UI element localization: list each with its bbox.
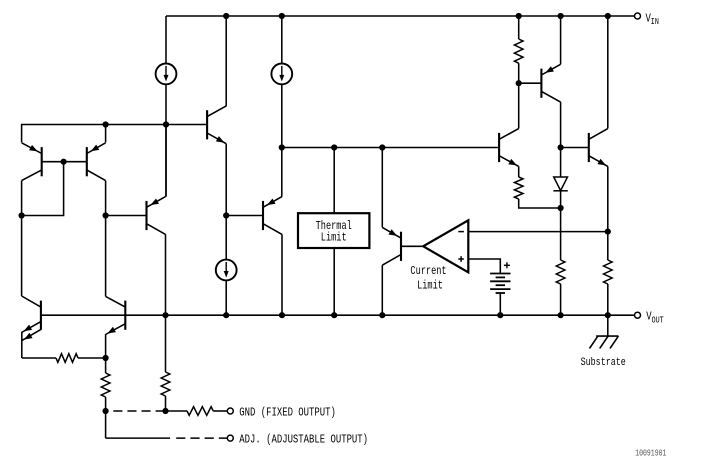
wire: R5 to node E (78, 357, 106, 359)
transistor Q2 (PNP mirror right) (87, 143, 106, 181)
wire: Q8 base to op-amp U1 (401, 245, 423, 247)
node: Q1 collector / Q6 feed (19, 212, 25, 218)
node: Q11 emitter / U1 inverting input (605, 229, 611, 235)
label VIN (646, 12, 659, 27)
wire: Q9 collector down to node C (560, 102, 562, 147)
wire: Q6 emitters down (21, 332, 23, 358)
wire: thermal limit box to ground rail (333, 248, 335, 315)
svg-text:Thermal: Thermal (316, 220, 352, 234)
wire: Q2 collector down (105, 181, 107, 297)
terminal VOUT (635, 312, 641, 318)
transistor Q7 (NPN) (106, 296, 126, 334)
node E: R5 / R6 / Q7 emitter (103, 355, 109, 361)
wire: Q5 collector down to ground rail (281, 234, 283, 315)
node: Q3 emitter / Q5 base tap (223, 212, 229, 218)
wire: Q8 collector to ground rail (381, 265, 383, 315)
wire: base rail y124 (Q1,Q2 mirror to Q3 base) (22, 124, 208, 126)
current source I3 (216, 260, 237, 281)
terminal GND (227, 408, 233, 414)
wire: x226 vertical top (Q3 collector to rail) (225, 16, 227, 106)
transistor Q1 (PNP mirror left) (22, 143, 42, 181)
node B: I2 / bias rail y147 (279, 144, 285, 150)
wire: Q4 collector down to ground rail (165, 234, 167, 315)
node F: R6 / adj branch (103, 408, 109, 414)
node: top rail / I2 (279, 13, 285, 19)
wire: node F down to adj row (105, 411, 107, 438)
label Thermal Limit (316, 220, 352, 245)
wire: Q4 emitter feed from node A (165, 125, 167, 197)
current source I2 (271, 64, 292, 85)
wire: adj row solid segment (106, 437, 171, 439)
svg-text:Limit: Limit (321, 231, 347, 245)
wire: Q6 emitter corner to R5 (22, 357, 56, 359)
wire: Q9 base (519, 82, 542, 84)
node: rail / Q4 collector (162, 312, 168, 318)
node: rail / thermal limit (331, 312, 337, 318)
wire: I2 top (281, 16, 283, 64)
wire: Q4 collector branch to R7 (165, 315, 167, 372)
svg-text:Substrate: Substrate (581, 356, 626, 370)
wire: x608 top (Q11 collector to rail) (607, 16, 609, 129)
label ADJ. (ADJUSTABLE OUTPUT) (239, 433, 368, 447)
node: R4 ground (605, 312, 611, 318)
node D: D1 cathode / R2 (558, 205, 564, 211)
transistor Q5 (PNP) (263, 197, 282, 235)
wire: Q2 emitter feed (105, 125, 107, 143)
wire: Q1-Q2 base tie (42, 161, 87, 163)
label GND (FIXED OUTPUT) (239, 406, 336, 420)
wire: top rail to R1 (518, 16, 520, 39)
node: R3 ground (558, 312, 564, 318)
transistor Q3 (NPN) (207, 106, 226, 144)
node: top rail / Q3 collector (223, 13, 229, 19)
wire: R1 to Q10 collector (518, 63, 520, 128)
svg-text:ADJ. (ADJUSTABLE OUTPUT): ADJ. (ADJUSTABLE OUTPUT) (239, 433, 368, 447)
wire: rail to substrate (607, 315, 609, 336)
node: Q2 collector / Q4 base / Q7 feed (103, 212, 109, 218)
wire: base tie to Q1 collector (diode connection) (22, 162, 64, 216)
node: R1 / Q9 base (516, 80, 522, 86)
wire: dashed adj row segment (176, 437, 227, 439)
node: rail / Q5 collector (279, 312, 285, 318)
svg-text:IN: IN (651, 17, 659, 27)
wire: Q11 base from node C (561, 147, 589, 149)
node: B1 ground (497, 312, 503, 318)
wire: U1 inverting input from x608 (468, 231, 608, 233)
wire: Q10 emitter to R2 (518, 166, 520, 177)
resistor R7 (161, 372, 170, 396)
wire: node E to R6 (105, 358, 107, 373)
svg-text:OUT: OUT (652, 316, 664, 326)
node C: Q9 collector / Q11 base / D1 (558, 144, 564, 150)
resistor R6 (101, 373, 110, 397)
wire: U1 non-inverting input to battery B1 (468, 259, 500, 274)
node: mirror right emitter tap (103, 121, 109, 127)
label Current Limit (410, 266, 446, 293)
wire: bias rail down to Q8 emitter (381, 148, 383, 228)
transistor Q11 (NPN pass) (589, 129, 608, 167)
wire: Q11 emitter down (607, 166, 609, 260)
transistor Q10 (NPN) (499, 129, 519, 167)
wire: top rail to I1 (165, 16, 167, 64)
wire: R6 to node F (105, 397, 107, 411)
transistor Q8 (PNP current limit) (382, 227, 401, 265)
wire: bias rail y147 to Q10 base (282, 147, 499, 149)
node: base tie tap (61, 159, 67, 165)
resistor R5 (56, 354, 78, 363)
label B1 plus (504, 262, 510, 268)
wire: bias rail to thermal limit box (333, 148, 335, 214)
label figure number 10091901 (635, 449, 666, 459)
wire: I2 to node B (281, 84, 283, 197)
current source I1 (156, 64, 177, 85)
wire: R8 to GND terminal (213, 410, 227, 412)
node: rail / Q8 collector (379, 312, 385, 318)
terminal VIN (635, 13, 641, 19)
wire: R2 to node D (519, 199, 561, 208)
resistor R8 (187, 407, 213, 416)
wire: node G to R8 (166, 410, 188, 412)
wire: dashed node F to node G (113, 410, 165, 412)
svg-text:Limit: Limit (417, 279, 443, 293)
battery B1 (bandgap reference) (490, 274, 510, 294)
node A: I1 / base rail y124 (163, 121, 169, 127)
node: top rail / Q9 emitter (558, 13, 564, 19)
label VOUT (646, 310, 664, 326)
node: top rail / Q11 collector (605, 13, 611, 19)
terminal ADJ (227, 435, 233, 441)
wire: R3 to ground rail (560, 284, 562, 315)
diode D1 (553, 148, 567, 209)
wire: corner down to Q1 emitter (21, 124, 23, 143)
wire: R4 to ground rail (607, 284, 609, 315)
transistor Q9 (PNP) (541, 64, 560, 102)
transistor Q4 (PNP) (147, 197, 166, 235)
transistor Q6 (dual-emitter NPN) (22, 296, 41, 340)
resistor R2 (514, 177, 523, 199)
wire: I1 to node A (165, 84, 167, 197)
wire: R7 to node G (165, 396, 167, 411)
wire: node to Q4 base (106, 215, 147, 217)
label Substrate (581, 356, 626, 370)
node: rail / I3 (223, 312, 229, 318)
wire: Q1 collector down (21, 181, 23, 296)
wire: Vin top rail (166, 15, 634, 17)
wire: tap to Q5 base (226, 215, 263, 217)
svg-text:10091901: 10091901 (635, 449, 666, 459)
wire: I3 to ground rail (225, 280, 227, 315)
block: Thermal Limit (298, 213, 369, 248)
node: top rail / R1 (516, 13, 522, 19)
wire: node D down to R3 (560, 208, 562, 260)
node: thermal limit tap (331, 144, 337, 150)
wire: Q7 emitter down to node E (105, 334, 107, 358)
svg-text:Current: Current (410, 266, 446, 278)
wire: Q6 collector feed (21, 295, 23, 297)
resistor R1 (514, 39, 523, 63)
substrate ground symbol (590, 336, 619, 348)
wire: Q3 emitter down to I3 (225, 144, 227, 260)
wire: output ground rail (41, 314, 635, 316)
node: current limit emitter tap (379, 144, 385, 150)
node G: R7 / gnd branch (162, 408, 168, 414)
resistor R3 (556, 260, 565, 284)
wire: Q9 emitter feed from top rail (560, 16, 562, 64)
svg-text:GND (FIXED OUTPUT): GND (FIXED OUTPUT) (239, 406, 336, 420)
op-amp U1 (current limit comparator) (423, 220, 468, 272)
wire: B1 to ground rail (499, 293, 501, 315)
resistor R4 (604, 260, 613, 284)
